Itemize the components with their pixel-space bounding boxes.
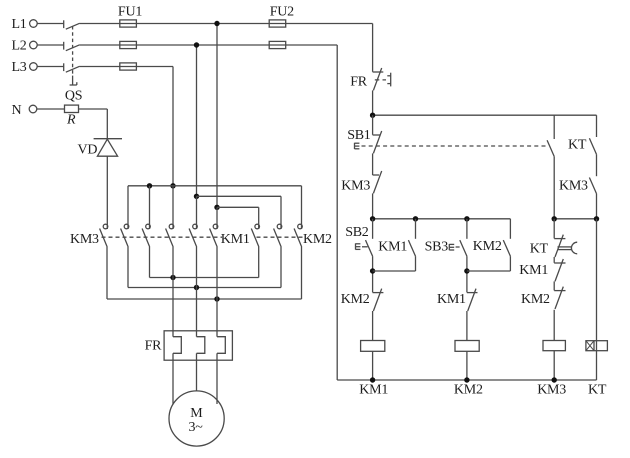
svg-text:FR: FR <box>145 339 163 354</box>
svg-text:KM3: KM3 <box>559 179 588 194</box>
svg-text:R: R <box>66 113 76 128</box>
svg-text:SB3: SB3 <box>425 239 449 254</box>
svg-text:FR: FR <box>350 75 368 90</box>
svg-text:L1: L1 <box>12 17 27 32</box>
svg-text:KM2: KM2 <box>521 292 550 307</box>
svg-text:SB2: SB2 <box>345 225 369 240</box>
svg-text:L3: L3 <box>12 60 27 75</box>
svg-text:KM1: KM1 <box>378 239 407 254</box>
svg-text:KM2: KM2 <box>303 232 332 247</box>
svg-text:3~: 3~ <box>188 420 203 435</box>
svg-text:KT: KT <box>530 241 549 256</box>
svg-text:KM1: KM1 <box>519 263 548 278</box>
svg-text:KM3: KM3 <box>537 383 566 398</box>
svg-text:KM1: KM1 <box>437 292 466 307</box>
svg-text:M: M <box>190 406 203 421</box>
svg-text:N: N <box>12 103 22 118</box>
svg-text:KM2: KM2 <box>341 292 370 307</box>
svg-text:KT: KT <box>568 138 587 153</box>
svg-text:FU1: FU1 <box>118 4 142 19</box>
svg-text:KM2: KM2 <box>454 383 483 398</box>
svg-text:KM3: KM3 <box>70 232 99 247</box>
svg-text:KM2: KM2 <box>473 239 502 254</box>
svg-text:KM3: KM3 <box>341 179 370 194</box>
svg-text:KT: KT <box>588 383 607 398</box>
svg-text:VD: VD <box>78 142 98 157</box>
svg-text:QS: QS <box>65 89 82 104</box>
svg-text:KM1: KM1 <box>359 382 388 397</box>
svg-text:SB1: SB1 <box>347 128 371 143</box>
svg-text:FU2: FU2 <box>270 4 294 19</box>
svg-text:L2: L2 <box>12 39 27 54</box>
svg-text:KM1: KM1 <box>221 232 250 247</box>
